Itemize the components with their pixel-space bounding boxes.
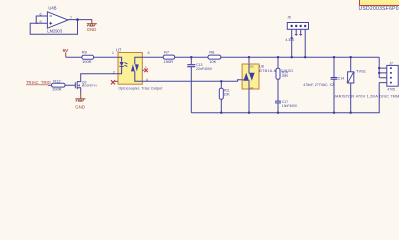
svg-text:MOSFET-N: MOSFET-N — [82, 83, 97, 87]
svg-text:100R: 100R — [52, 87, 62, 92]
svg-text:4705: 4705 — [387, 87, 395, 91]
svg-text:TVS1: TVS1 — [356, 69, 367, 74]
svg-text:476nF, 277VAC, X2: 476nF, 277VAC, X2 — [303, 83, 334, 87]
svg-text:GND: GND — [75, 104, 85, 109]
svg-text:10nF400V: 10nF400V — [282, 104, 298, 108]
svg-text:J7: J7 — [389, 62, 393, 66]
svg-text:5V: 5V — [63, 48, 70, 53]
svg-text:A1: A1 — [250, 86, 254, 90]
svg-text:150R: 150R — [164, 59, 174, 64]
svg-text:1: 1 — [112, 51, 114, 55]
svg-text:USD2003SF6P0E: USD2003SF6P0E — [359, 6, 399, 12]
svg-text:J5: J5 — [287, 16, 291, 20]
svg-text:39R: 39R — [282, 74, 289, 78]
svg-text:7: 7 — [70, 16, 72, 20]
svg-text:A2: A2 — [250, 65, 254, 69]
svg-text:22nF400V: 22nF400V — [196, 67, 213, 71]
svg-text:R9: R9 — [82, 50, 88, 55]
svg-text:LM2903: LM2903 — [47, 29, 63, 34]
svg-text:R8: R8 — [209, 50, 215, 55]
svg-text:6: 6 — [40, 13, 42, 17]
svg-text:TRIAC_TRIG: TRIAC_TRIG — [26, 80, 51, 85]
svg-text:100R: 100R — [82, 59, 92, 64]
svg-text:R7: R7 — [164, 50, 170, 55]
svg-text:10K: 10K — [224, 92, 231, 96]
svg-text:U7: U7 — [116, 47, 122, 52]
svg-text:R12: R12 — [53, 78, 61, 83]
svg-text:U8: U8 — [259, 64, 264, 68]
svg-text:U4B: U4B — [48, 6, 56, 11]
svg-text:GND: GND — [87, 27, 97, 32]
svg-text:6: 6 — [148, 51, 150, 55]
svg-text:C14: C14 — [338, 77, 344, 81]
svg-text:Optocoupler, Triac Output: Optocoupler, Triac Output — [118, 87, 162, 91]
svg-text:VARISTOR 470V 1.2KA DISC 7MM: VARISTOR 470V 1.2KA DISC 7MM — [334, 95, 399, 99]
svg-text:10K: 10K — [209, 59, 216, 64]
svg-text:4.30S: 4.30S — [285, 38, 295, 42]
svg-text:5: 5 — [40, 20, 42, 24]
